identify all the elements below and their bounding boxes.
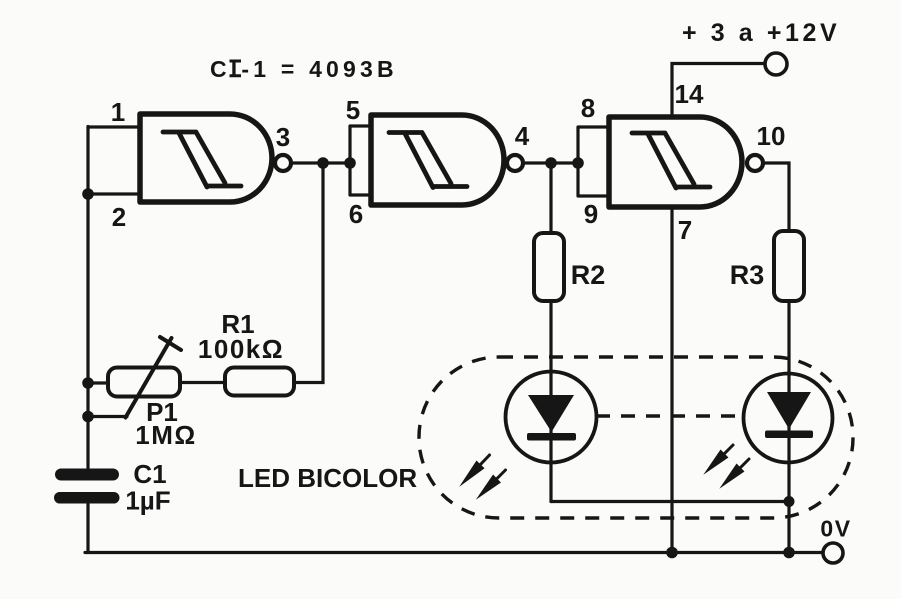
svg-text:1: 1 (111, 97, 125, 127)
svg-text:14: 14 (675, 79, 704, 109)
svg-text:R2: R2 (571, 260, 606, 290)
svg-text:2: 2 (112, 202, 126, 232)
svg-text:8: 8 (581, 93, 595, 123)
svg-text:LED BICOLOR: LED BICOLOR (238, 463, 417, 493)
svg-text:3: 3 (276, 122, 290, 152)
svg-text:1MΩ: 1MΩ (135, 420, 196, 450)
svg-text:0V: 0V (820, 516, 851, 542)
svg-text:6: 6 (349, 199, 363, 229)
svg-text:1µF: 1µF (125, 486, 170, 516)
svg-text:7: 7 (678, 215, 692, 245)
svg-text:R3: R3 (730, 260, 765, 290)
svg-text:4: 4 (515, 121, 530, 151)
svg-text:C1: C1 (133, 459, 166, 489)
svg-text:10: 10 (757, 121, 786, 151)
svg-text:5: 5 (346, 95, 360, 125)
svg-text:100kΩ: 100kΩ (198, 334, 284, 364)
svg-text:9: 9 (584, 199, 598, 229)
svg-text:+ 3 a +12V: + 3 a +12V (682, 19, 840, 47)
